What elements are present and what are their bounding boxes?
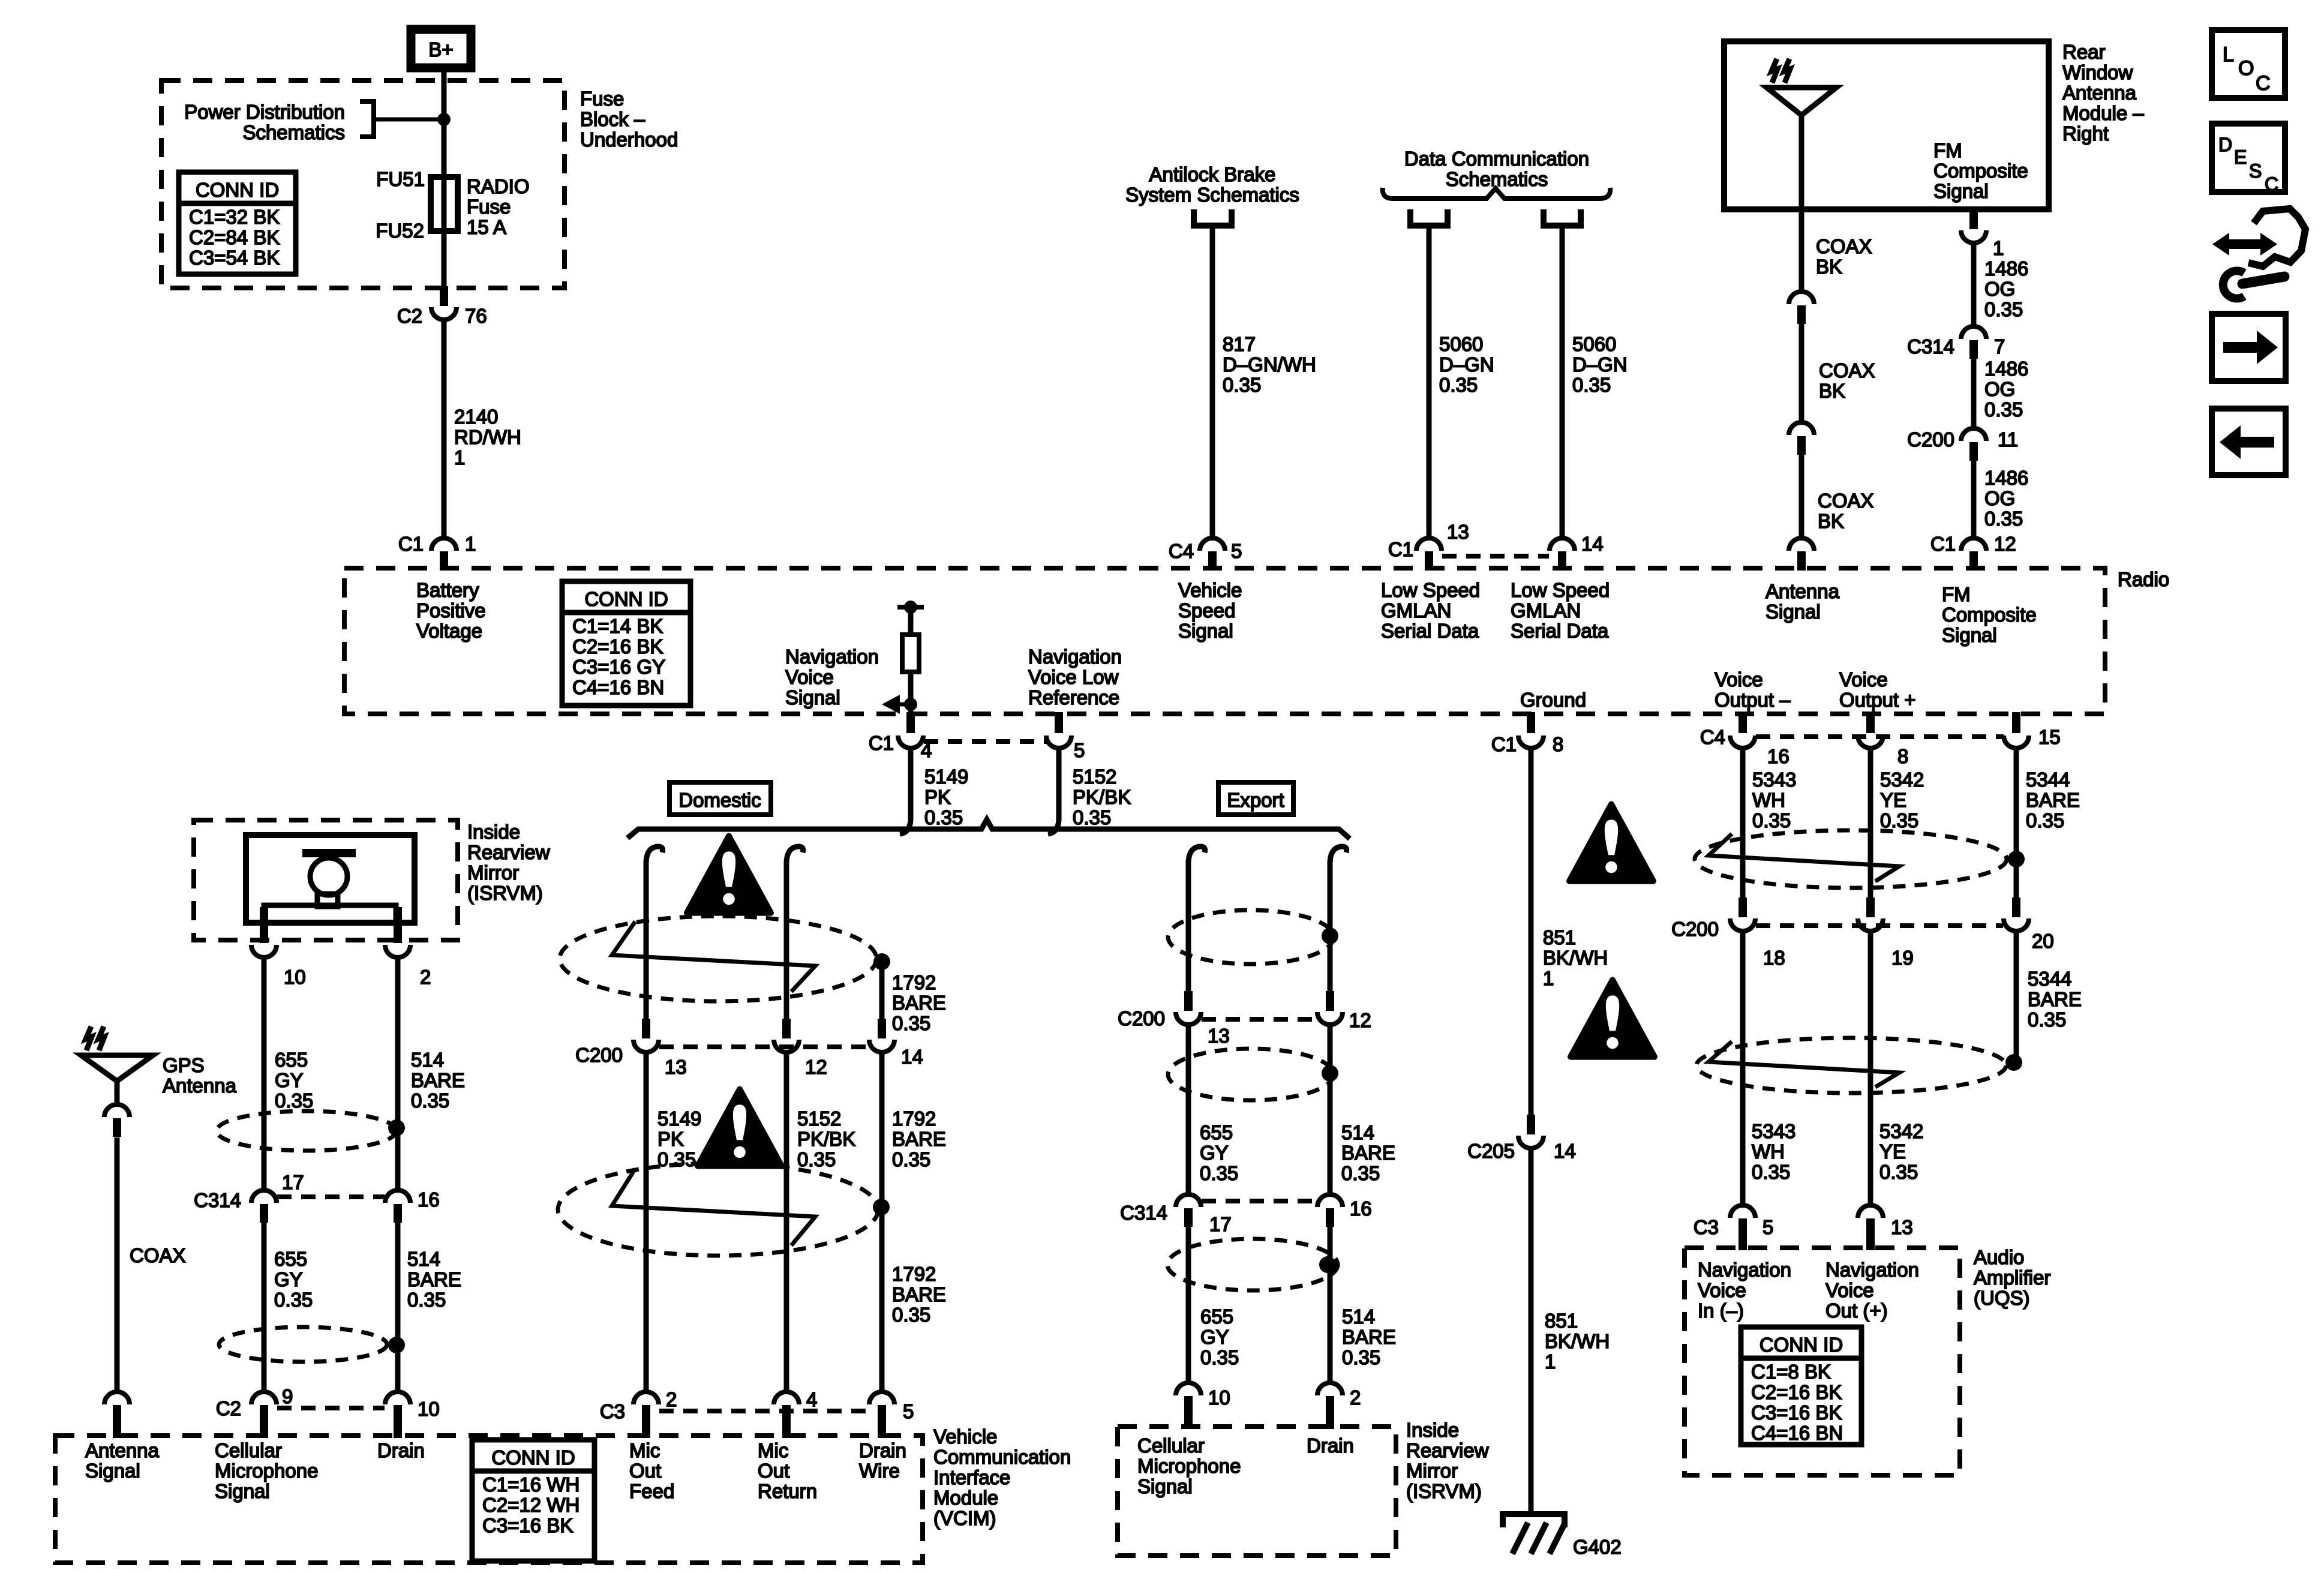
svg-text:O: O xyxy=(2238,57,2254,80)
export mic return wire lower xyxy=(1328,1227,1333,1384)
svg-text:1: 1 xyxy=(465,533,476,555)
svg-text:10: 10 xyxy=(1208,1386,1230,1409)
ground wire 851 upper xyxy=(1529,748,1534,1115)
svg-text:14: 14 xyxy=(1581,533,1604,555)
svg-text:G402: G402 xyxy=(1573,1536,1622,1558)
svg-text:C3: C3 xyxy=(1694,1216,1719,1238)
svg-text:C1: C1 xyxy=(1491,733,1517,755)
ground wire 851 lower xyxy=(1529,1148,1534,1514)
LOC legend box xyxy=(2212,30,2285,98)
svg-text:C2=12 WH: C2=12 WH xyxy=(482,1494,580,1516)
connector C3 pin 5 into VCIM xyxy=(869,1392,894,1404)
svg-text:1: 1 xyxy=(1993,237,2004,259)
domestic mic feed wire lower xyxy=(644,1052,649,1393)
connector C3 pin 2 into VCIM xyxy=(633,1392,659,1404)
gps antenna mast xyxy=(115,1080,120,1106)
twisted pair ellipse export lower xyxy=(1167,1239,1338,1290)
svg-text:Antilock BrakeSystem Schematic: Antilock BrakeSystem Schematics xyxy=(1125,163,1299,206)
mic signal wire 655 upper xyxy=(262,957,267,1191)
inside rearview mirror export dashed box xyxy=(1118,1427,1396,1556)
voice minus wire lower xyxy=(1740,931,1746,1206)
fm wire 1486 OG first xyxy=(1971,243,1977,328)
svg-text:17: 17 xyxy=(1209,1213,1232,1235)
wire resistor to junction xyxy=(908,672,914,714)
ISRVM pin 2 xyxy=(394,907,402,943)
twisted pair ellipse voice lower xyxy=(1697,1038,2006,1093)
export mic return wire upper xyxy=(1328,860,1333,992)
svg-text:C314: C314 xyxy=(1120,1202,1167,1224)
svg-text:Ground: Ground xyxy=(1520,689,1586,711)
ground symbol G402 xyxy=(1503,1514,1565,1527)
svg-text:16: 16 xyxy=(1767,745,1789,767)
connector C200 pin 14 xyxy=(878,1019,886,1038)
connector antenna coax into VCIM xyxy=(104,1392,130,1404)
mic signal wire 655 lower xyxy=(262,1223,267,1393)
inside rearview mirror dashed box top xyxy=(194,820,458,940)
data communication curly brace xyxy=(1383,188,1610,199)
svg-text:C1=32 BK: C1=32 BK xyxy=(189,206,280,228)
antenna coax wire lower xyxy=(1799,455,1804,536)
vcim conn id table xyxy=(472,1440,594,1561)
svg-text:9: 9 xyxy=(282,1385,293,1407)
wire nav voice signal to split brace xyxy=(908,748,914,821)
connector pin 10 into ISRVM export xyxy=(1176,1383,1201,1395)
svg-text:13: 13 xyxy=(1447,521,1469,543)
svg-text:C3=16 BK: C3=16 BK xyxy=(1751,1401,1842,1424)
drain wire 1792 to VCIM xyxy=(879,1052,885,1207)
warning triangle ground lower xyxy=(1571,980,1655,1057)
connector C200 pin 11 inline xyxy=(1961,428,1986,441)
domestic mic return wire lower xyxy=(784,1052,789,1393)
svg-text:12: 12 xyxy=(805,1056,827,1078)
svg-text:11: 11 xyxy=(1998,428,2018,451)
svg-text:2: 2 xyxy=(1350,1386,1361,1409)
svg-text:FU51: FU51 xyxy=(376,168,425,190)
vehicle communication interface module dashed box xyxy=(55,1436,923,1563)
twisted pair ellipse left upper xyxy=(217,1111,397,1151)
svg-text:CONN ID: CONN ID xyxy=(1759,1334,1843,1356)
svg-text:7: 7 xyxy=(1994,335,2005,358)
ISRVM pin 10 xyxy=(260,907,268,943)
svg-text:C: C xyxy=(2265,173,2278,195)
voice drain wire upper xyxy=(2014,748,2019,899)
connector C200 pin 13 xyxy=(642,1019,650,1038)
svg-text:C4: C4 xyxy=(1169,540,1194,562)
svg-text:C3=54 BK: C3=54 BK xyxy=(189,247,280,269)
connector C4 pin 16 voice output minus xyxy=(1739,712,1747,733)
wire 5060 D-GN right xyxy=(1560,226,1565,538)
fuse RADIO 15A FU51/FU52 xyxy=(431,177,458,231)
svg-text:4: 4 xyxy=(806,1388,817,1410)
svg-text:10: 10 xyxy=(284,966,306,988)
svg-text:C: C xyxy=(2256,72,2271,95)
connector C314 pin 17 export xyxy=(1176,1194,1201,1207)
svg-text:C205: C205 xyxy=(1467,1140,1515,1162)
export mic feed wire hook xyxy=(1188,846,1205,864)
gmlan source bracket right xyxy=(1544,209,1581,226)
connector pin 2 into ISRVM export xyxy=(1317,1383,1343,1395)
connector C3 pin 5 into audio amplifier xyxy=(1730,1205,1755,1218)
domestic mic feed wire upper xyxy=(644,860,649,1020)
connector C1 pin 5 navigation voice low xyxy=(1055,712,1063,733)
connector C4 pin 5 into radio xyxy=(1200,538,1225,551)
svg-text:C1: C1 xyxy=(398,533,424,555)
connector C3 pin 4 into VCIM xyxy=(774,1392,799,1404)
svg-text:C2: C2 xyxy=(397,305,422,327)
svg-text:13: 13 xyxy=(665,1056,687,1078)
dashed link across voice output pins xyxy=(1756,734,2004,739)
svg-text:C4: C4 xyxy=(1700,726,1725,748)
svg-text:C1: C1 xyxy=(1388,538,1413,560)
svg-text:B+: B+ xyxy=(428,38,453,61)
nav voice resistor xyxy=(902,635,919,672)
nav voice top tee with node xyxy=(897,605,924,610)
svg-text:12: 12 xyxy=(1994,533,2016,555)
dashed link between radio pins 4 and 5 xyxy=(924,739,1046,744)
svg-text:16: 16 xyxy=(418,1188,440,1211)
export label box xyxy=(1218,782,1293,815)
svg-text:Drain: Drain xyxy=(1307,1434,1354,1457)
dashed link between gmlan pins 13 and 14 xyxy=(1442,554,1549,559)
svg-text:C1=14 BK: C1=14 BK xyxy=(572,615,663,637)
svg-text:10: 10 xyxy=(418,1398,440,1420)
dashed link C314 left xyxy=(277,1194,385,1199)
connector C205 pin 14 xyxy=(1527,1115,1535,1134)
svg-text:14: 14 xyxy=(901,1046,923,1068)
export mic return wire mid xyxy=(1328,1025,1333,1194)
fuse block conn id table xyxy=(179,172,296,274)
svg-text:16: 16 xyxy=(1350,1197,1372,1220)
svg-text:C200: C200 xyxy=(1671,918,1719,940)
svg-text:C3=16 BK: C3=16 BK xyxy=(482,1514,573,1536)
dashed link C200 export xyxy=(1202,1017,1317,1022)
svg-text:19: 19 xyxy=(1891,947,1914,969)
radio conn id table xyxy=(562,581,690,706)
drain node left upper xyxy=(388,1119,405,1136)
rear window antenna symbol xyxy=(1767,88,1836,115)
svg-text:C3: C3 xyxy=(600,1400,625,1422)
svg-text:S: S xyxy=(2249,160,2262,182)
svg-text:C2=16 BK: C2=16 BK xyxy=(1751,1381,1842,1403)
voice drain wire lower xyxy=(2014,931,2019,1062)
svg-text:2: 2 xyxy=(420,966,431,988)
fm wire 1486 OG second xyxy=(1971,359,1977,430)
export mic feed wire mid xyxy=(1186,1025,1191,1194)
domestic label box xyxy=(669,782,771,815)
back arrow legend box xyxy=(2212,409,2286,475)
connector C2 pin 76 xyxy=(440,286,448,306)
svg-text:C3=16 GY: C3=16 GY xyxy=(572,656,665,678)
drain wire 514 lower xyxy=(395,1223,401,1393)
drain node left lower xyxy=(388,1337,405,1353)
connector C314 pin 17 left xyxy=(251,1190,277,1203)
mirror camera solid box xyxy=(246,835,415,923)
dashed link C314 export xyxy=(1202,1199,1317,1203)
audio amplifier conn id table xyxy=(1741,1327,1861,1445)
export mic feed wire upper xyxy=(1186,860,1191,992)
svg-text:VehicleSpeedSignal: VehicleSpeedSignal xyxy=(1178,579,1242,642)
connector C3 pin 13 into audio amplifier xyxy=(1858,1205,1883,1218)
radio dashed box xyxy=(344,568,2105,714)
power distribution bracket xyxy=(360,101,374,137)
connector pin 15 drain xyxy=(2012,712,2020,733)
svg-text:76: 76 xyxy=(465,305,487,327)
svg-text:C2=16 BK: C2=16 BK xyxy=(572,635,663,658)
svg-text:Radio: Radio xyxy=(2118,568,2169,590)
svg-text:C200: C200 xyxy=(1118,1007,1165,1029)
connector C314 pin 16 left xyxy=(385,1190,410,1203)
svg-text:CONN ID: CONN ID xyxy=(196,179,279,201)
svg-text:CONN ID: CONN ID xyxy=(584,588,668,610)
svg-text:BatteryPositiveVoltage: BatteryPositiveVoltage xyxy=(416,579,486,642)
connector C1 pin 13 into radio xyxy=(1416,538,1442,551)
connector C200 pin 13 export xyxy=(1184,991,1193,1011)
connector C1 pin 14 into radio xyxy=(1550,538,1575,551)
svg-text:C1: C1 xyxy=(869,732,894,754)
svg-text:Domestic: Domestic xyxy=(678,789,761,811)
DESC legend box xyxy=(2212,124,2285,192)
nav voice junction node xyxy=(904,698,917,711)
fm composite pin from antenna module xyxy=(1969,209,1978,229)
wire 5060 D-GN left xyxy=(1427,226,1432,538)
svg-text:C4=16 BN: C4=16 BN xyxy=(1751,1422,1843,1444)
svg-text:5: 5 xyxy=(1074,739,1085,761)
export mic feed wire lower xyxy=(1186,1227,1191,1384)
svg-text:C1=16 WH: C1=16 WH xyxy=(482,1473,580,1496)
warning triangle ground upper xyxy=(1569,804,1653,881)
export mic return wire hook xyxy=(1330,846,1347,864)
connector C314 pin 16 export xyxy=(1317,1194,1343,1207)
twisted pair ellipse domestic lower xyxy=(558,1163,878,1256)
export drain node lower xyxy=(1319,1256,1336,1273)
drain wire 1792 upper xyxy=(879,962,885,1020)
svg-text:C1=8 BK: C1=8 BK xyxy=(1751,1361,1831,1383)
svg-text:D: D xyxy=(2218,134,2232,155)
svg-text:L: L xyxy=(2223,43,2234,66)
svg-text:Drain: Drain xyxy=(377,1439,425,1461)
antenna coax wire upper xyxy=(1799,209,1804,292)
svg-text:17: 17 xyxy=(282,1171,304,1193)
wire fuse to connector C2 xyxy=(442,231,447,288)
twisted pair ellipse left lower xyxy=(219,1327,387,1362)
svg-text:15: 15 xyxy=(2038,726,2061,748)
svg-text:2: 2 xyxy=(666,1388,677,1410)
connector C200 pin 12 export xyxy=(1326,991,1334,1011)
connector antenna signal into radio xyxy=(1789,538,1814,551)
dashed link C3 2-4-5 xyxy=(659,1409,869,1413)
svg-text:COAX: COAX xyxy=(130,1244,186,1266)
gps coax inline connector xyxy=(104,1104,130,1117)
drain junction node domestic xyxy=(873,953,890,970)
twisted pair ellipse domestic upper xyxy=(560,916,876,1001)
audio amplifier dashed box xyxy=(1685,1248,1960,1475)
svg-text:13: 13 xyxy=(1208,1025,1230,1047)
connector C200 pin 19 xyxy=(1866,897,1875,917)
svg-text:8: 8 xyxy=(1897,745,1908,767)
svg-text:18: 18 xyxy=(1763,947,1785,969)
export drain node mid xyxy=(1322,1065,1338,1082)
svg-text:8: 8 xyxy=(1553,733,1563,755)
connector C1 pin 4 navigation voice signal xyxy=(906,712,915,733)
wire 2140 RD/WH to radio C1 xyxy=(442,320,447,538)
svg-text:E: E xyxy=(2234,146,2247,168)
svg-text:FU52: FU52 xyxy=(376,220,424,242)
wire B+ to fuse FU51 xyxy=(442,68,447,177)
svg-text:C314: C314 xyxy=(194,1189,241,1211)
svg-text:12: 12 xyxy=(1349,1009,1371,1031)
svg-text:C314: C314 xyxy=(1907,335,1954,358)
gmlan source bracket left xyxy=(1410,209,1448,226)
connector C200 pin 20 xyxy=(2012,897,2020,917)
voice drain node upper xyxy=(2008,851,2025,867)
drain wire 514 upper xyxy=(395,957,401,1191)
voice drain node lower xyxy=(2005,1054,2022,1071)
fuse block - underhood dashed box xyxy=(161,80,565,288)
mirror icon xyxy=(302,849,356,857)
connector C314 pin 7 inline xyxy=(1961,326,1986,339)
svg-text:Export: Export xyxy=(1227,789,1284,811)
svg-text:C4=16 BN: C4=16 BN xyxy=(572,676,664,698)
junction node on B+ feed xyxy=(437,113,451,126)
drain junction node domestic lower xyxy=(873,1199,890,1215)
svg-text:14: 14 xyxy=(1554,1140,1576,1162)
diagnostic tool icon arrows and wrench xyxy=(2212,233,2277,256)
antilock brake source bracket xyxy=(1194,209,1232,226)
domestic mic return wire upper xyxy=(784,860,789,1020)
dashed link C2 9-10 xyxy=(277,1406,385,1410)
inline coax connector 2 xyxy=(1789,422,1814,435)
twisted pair ellipse voice upper xyxy=(1695,830,2007,888)
svg-text:5: 5 xyxy=(1231,540,1242,562)
wire from power distribution to B+ feed xyxy=(374,118,444,122)
twisted pair ellipse export mid xyxy=(1168,1049,1334,1100)
gps antenna symbol xyxy=(81,1055,153,1081)
svg-text:20: 20 xyxy=(2032,930,2054,952)
gps coax wire xyxy=(115,1137,120,1393)
rear window antenna module box xyxy=(1724,41,2049,209)
fm wire 1486 OG third xyxy=(1971,461,1977,538)
dashed link C200 13-12-14 xyxy=(659,1044,869,1049)
forward arrow legend box xyxy=(2212,314,2286,381)
domestic mic return wire hook xyxy=(786,846,803,864)
svg-text:5: 5 xyxy=(1762,1216,1773,1238)
voice plus wire upper xyxy=(1868,748,1873,899)
svg-text:CONN ID: CONN ID xyxy=(491,1446,575,1469)
voice plus wire lower xyxy=(1868,931,1873,1206)
dashed link C200 18-19-20 xyxy=(1756,923,2003,928)
connector pin 8 voice output plus xyxy=(1866,712,1875,733)
inline coax connector 1 xyxy=(1789,292,1814,304)
connector C2 pin 9 into VCIM xyxy=(251,1392,277,1404)
domestic mic feed wire hook xyxy=(646,846,663,864)
svg-text:C1: C1 xyxy=(1930,533,1956,555)
connector C1 pin 12 into radio xyxy=(1961,538,1986,551)
svg-text:C200: C200 xyxy=(575,1044,623,1066)
warning triangle domestic upper xyxy=(687,836,771,913)
svg-text:13: 13 xyxy=(1891,1216,1913,1238)
split brace domestic-export xyxy=(627,819,1350,839)
svg-text:DrainWire: DrainWire xyxy=(859,1439,906,1482)
wire 817 D-GN/WH vehicle speed xyxy=(1210,226,1215,538)
svg-text:C2: C2 xyxy=(216,1397,241,1419)
connector C1 pin 8 ground xyxy=(1527,712,1535,733)
svg-text:5: 5 xyxy=(903,1400,914,1422)
svg-text:NavigationVoice LowReference: NavigationVoice LowReference xyxy=(1028,646,1122,709)
connector C200 pin 18 xyxy=(1739,897,1747,917)
power feed B+ terminal box xyxy=(411,29,471,68)
voice minus wire upper xyxy=(1740,748,1746,899)
svg-text:C200: C200 xyxy=(1907,428,1954,451)
wire nav voice low to split brace xyxy=(1056,748,1062,821)
nav voice direction arrow xyxy=(896,703,911,707)
twisted pair ellipse export upper xyxy=(1168,910,1334,964)
export drain node upper xyxy=(1322,927,1338,944)
connector C2 pin 10 into VCIM xyxy=(385,1392,410,1404)
antenna coax wire middle xyxy=(1799,324,1804,423)
svg-text:C2=84 BK: C2=84 BK xyxy=(189,226,280,248)
warning triangle domestic lower xyxy=(698,1089,782,1166)
connector C1 pin 1 into radio xyxy=(431,538,457,551)
connector C200 pin 12 xyxy=(782,1019,791,1038)
